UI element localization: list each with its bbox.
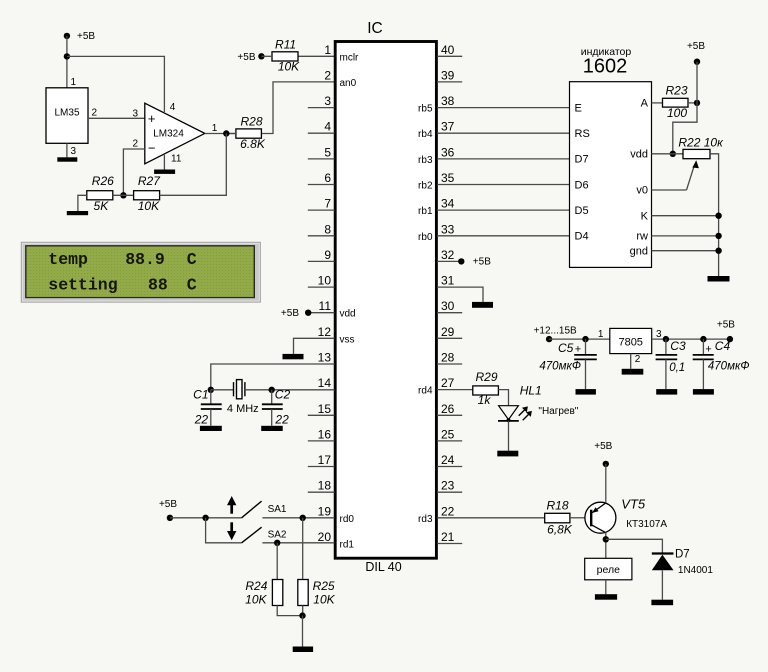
power +5B VT5 — [603, 461, 609, 467]
IC pin 30 stub — [437, 312, 462, 314]
svg-text:10: 10 — [318, 274, 332, 288]
svg-text:19: 19 — [318, 504, 332, 518]
node R24 top — [274, 540, 280, 546]
svg-text:17: 17 — [318, 453, 332, 467]
wire rw — [652, 235, 719, 237]
IC pin 3 stub — [308, 107, 335, 109]
IC pin 10 stub — [308, 286, 335, 288]
ground D7 — [651, 600, 673, 606]
svg-text:+: + — [148, 111, 156, 126]
svg-text:R26: R26 — [92, 174, 114, 188]
wire R29 to LED — [498, 390, 508, 406]
svg-text:100: 100 — [667, 106, 687, 120]
svg-text:C: C — [187, 250, 197, 269]
svg-text:v0: v0 — [636, 185, 648, 197]
resistor R27 — [134, 191, 160, 200]
svg-text:E: E — [575, 102, 582, 114]
wire LED to ground — [508, 421, 510, 451]
svg-text:+12...15В: +12...15В — [534, 325, 577, 336]
svg-text:6.8K: 6.8K — [240, 137, 266, 151]
IC pin 15 stub — [308, 414, 335, 416]
node R24/R25 — [299, 612, 305, 618]
ground LED — [497, 451, 518, 457]
svg-text:C4: C4 — [715, 339, 731, 353]
node R25 top — [300, 515, 306, 521]
svg-text:6,8K: 6,8K — [547, 522, 573, 536]
svg-text:36: 36 — [441, 145, 455, 159]
wire pin32 vdd +5B — [437, 260, 461, 262]
svg-text:temp: temp — [48, 250, 88, 269]
wire pin27 rd4 to R29 — [437, 389, 473, 391]
svg-text:16: 16 — [318, 427, 332, 441]
wire vdd to R22 — [652, 153, 684, 155]
resistor R23 — [663, 98, 689, 107]
power +5B top left — [64, 33, 70, 39]
IC pin 9 stub — [308, 260, 335, 262]
IC pin 16 stub — [308, 440, 335, 442]
wire inverting input to divider — [123, 149, 144, 195]
wire R27 to output node — [160, 134, 227, 196]
wire +5B to SA1 — [170, 517, 242, 519]
7805 pin2 wire — [630, 354, 632, 369]
LCD readout panel frame — [21, 242, 260, 302]
svg-text:470мкФ: 470мкФ — [708, 360, 750, 372]
wire R25 top — [302, 518, 304, 580]
svg-text:R22 10к: R22 10к — [678, 135, 724, 149]
svg-text:7805: 7805 — [618, 337, 642, 349]
svg-text:2: 2 — [635, 354, 641, 365]
svg-text:R23: R23 — [665, 83, 687, 97]
node junction +5B — [64, 53, 70, 59]
svg-text:27: 27 — [441, 376, 455, 390]
svg-text:D4: D4 — [575, 231, 589, 243]
regulator 7805 body — [610, 328, 652, 353]
svg-text:R24: R24 — [245, 579, 267, 593]
svg-text:8: 8 — [324, 222, 331, 236]
svg-text:88.9: 88.9 — [125, 250, 165, 269]
wires IC rb5-rb0 to indicator — [437, 107, 570, 109]
wire 7805 output rail — [652, 338, 730, 340]
wire pin22 rd3 to R18 — [437, 517, 545, 519]
svg-text:40: 40 — [441, 43, 455, 57]
svg-text:3: 3 — [656, 329, 662, 340]
svg-text:mclr: mclr — [340, 52, 360, 63]
power +5B indicator — [694, 59, 700, 65]
svg-text:0,1: 0,1 — [669, 362, 685, 374]
wire SA2 to pin20 — [262, 542, 334, 544]
wire input to 7805 — [549, 338, 610, 340]
svg-text:rw: rw — [636, 231, 648, 243]
crystal ZQ1 4MHz — [233, 382, 235, 396]
svg-text:DIL 40: DIL 40 — [365, 560, 401, 574]
op-amp output wire pin1 — [205, 133, 236, 135]
relay body — [585, 558, 632, 580]
op-amp pin11 wire — [163, 155, 165, 170]
IC pin 24 stub — [437, 466, 462, 468]
svg-text:+5B: +5B — [594, 441, 612, 452]
IC pin 18 stub — [308, 491, 335, 493]
IC pin 28 stub — [437, 363, 462, 365]
switch SA2 blade — [242, 527, 262, 543]
svg-text:+5B: +5B — [237, 52, 255, 63]
wire crystal left — [211, 389, 234, 391]
svg-text:29: 29 — [441, 325, 455, 339]
wire pin31 vss to ground — [437, 287, 483, 302]
svg-text:5K: 5K — [94, 199, 110, 213]
wire R26 to ground — [78, 195, 87, 211]
svg-text:3: 3 — [71, 146, 77, 157]
svg-text:rb4: rb4 — [418, 129, 433, 140]
svg-text:SA2: SA2 — [268, 529, 287, 540]
svg-text:9: 9 — [324, 248, 331, 262]
svg-text:5: 5 — [324, 145, 331, 159]
wire pin12 vss to ground — [294, 338, 335, 354]
wire R25 bottom — [302, 606, 304, 616]
svg-text:rb5: rb5 — [418, 104, 433, 115]
VT5 emitter with arrow — [592, 503, 606, 513]
svg-text:18: 18 — [318, 479, 332, 493]
svg-text:"Нагрев": "Нагрев" — [538, 406, 578, 417]
VT5 collector — [591, 525, 605, 533]
IC U1 DIL40 body — [335, 42, 436, 559]
wire R23 to +5B — [688, 102, 697, 104]
wire collector to D7 — [606, 539, 663, 552]
svg-text:38: 38 — [441, 94, 455, 108]
LED emission arrows — [519, 409, 526, 416]
svg-text:VT5: VT5 — [621, 497, 646, 512]
wire R24 top — [276, 543, 278, 580]
svg-text:21: 21 — [441, 530, 455, 544]
svg-text:4: 4 — [170, 102, 176, 113]
svg-text:D7: D7 — [675, 548, 690, 560]
svg-text:K: K — [641, 210, 649, 222]
svg-text:1k: 1k — [478, 393, 492, 407]
svg-text:6: 6 — [324, 171, 331, 185]
svg-text:1: 1 — [598, 329, 604, 340]
svg-text:30: 30 — [441, 299, 455, 313]
svg-text:10K: 10K — [278, 60, 300, 74]
wire +5B to LM35 pin1 — [66, 36, 68, 88]
svg-text:13: 13 — [318, 351, 332, 365]
svg-text:32: 32 — [441, 248, 455, 262]
svg-text:C: C — [187, 276, 197, 295]
wire to ground — [302, 616, 304, 647]
svg-text:25: 25 — [441, 427, 455, 441]
svg-text:реле: реле — [597, 564, 620, 576]
svg-text:11: 11 — [171, 154, 182, 165]
svg-text:vdd: vdd — [630, 148, 648, 160]
wire R26-R27 node — [113, 194, 134, 196]
svg-text:2: 2 — [132, 139, 138, 150]
wire +5B to op-amp pin4 — [67, 56, 164, 112]
svg-text:22: 22 — [274, 412, 289, 426]
svg-text:15: 15 — [318, 402, 332, 416]
IC pin 25 stub — [437, 440, 462, 442]
LCD pixel texture — [27, 247, 254, 297]
svg-text:rd0: rd0 — [340, 514, 355, 525]
IC pin 29 stub — [437, 337, 462, 339]
node C2 — [269, 387, 275, 393]
svg-text:3: 3 — [132, 109, 138, 120]
svg-text:2: 2 — [92, 108, 98, 119]
IC pin 26 stub — [437, 414, 462, 416]
svg-text:10K: 10K — [313, 593, 335, 607]
node vdd — [670, 151, 676, 157]
resistor R18 — [545, 513, 570, 523]
IC pin 6 stub — [308, 184, 335, 186]
node C1 — [208, 387, 214, 393]
IC pin 40 stub — [437, 55, 462, 57]
svg-text:14: 14 — [318, 376, 332, 390]
svg-text:C1: C1 — [193, 388, 208, 402]
IC pin 8 stub — [308, 235, 335, 237]
node C3 — [663, 336, 669, 342]
svg-text:35: 35 — [441, 171, 455, 185]
R22 wiper arrow — [687, 167, 694, 190]
wire gnd — [652, 250, 719, 252]
svg-text:4 MHz: 4 MHz — [227, 403, 259, 415]
svg-text:1: 1 — [71, 77, 77, 88]
svg-text:31: 31 — [441, 274, 455, 288]
svg-text:+: + — [575, 343, 581, 355]
switch SA1 blade — [242, 501, 262, 518]
svg-text:24: 24 — [441, 453, 455, 467]
svg-text:88: 88 — [148, 276, 168, 295]
wire pin11 vdd +5B — [308, 312, 334, 314]
svg-text:3: 3 — [324, 94, 331, 108]
svg-text:IC: IC — [367, 20, 383, 37]
svg-text:20: 20 — [318, 530, 332, 544]
node C5 — [582, 336, 588, 342]
wire pin1 R11 to IC — [298, 55, 335, 57]
svg-text:A: A — [641, 98, 649, 110]
LM35 pin3 wire — [66, 143, 68, 157]
capacitor C4 — [702, 339, 704, 354]
ground C5 — [576, 389, 596, 395]
svg-text:−: − — [148, 141, 156, 156]
svg-text:+5B: +5B — [687, 41, 705, 52]
capacitor C5 — [585, 339, 587, 354]
svg-text:rd4: rd4 — [418, 386, 433, 397]
node divider — [120, 192, 126, 198]
ground 7805 — [622, 369, 644, 375]
ground C2 — [261, 426, 283, 431]
wire D7 to ground — [661, 570, 663, 600]
IC pin 7 stub — [308, 209, 335, 211]
svg-text:setting: setting — [48, 276, 117, 295]
svg-text:RS: RS — [575, 128, 590, 140]
ground relay — [595, 594, 617, 600]
svg-text:HL1: HL1 — [520, 384, 542, 398]
svg-text:R28: R28 — [240, 115, 262, 129]
wire R28 to node — [226, 133, 236, 135]
svg-text:an0: an0 — [340, 78, 357, 89]
svg-text:R27: R27 — [138, 174, 161, 188]
capacitor C2 — [271, 390, 273, 404]
capacitor C3 — [665, 339, 667, 354]
svg-text:22: 22 — [194, 412, 209, 426]
svg-text:39: 39 — [441, 68, 455, 82]
svg-text:+5B: +5B — [717, 320, 735, 331]
svg-text:C3: C3 — [670, 339, 686, 353]
svg-text:1N4001: 1N4001 — [678, 565, 713, 576]
power +5B rail end — [727, 336, 733, 342]
wire A to R23 — [652, 102, 663, 104]
svg-text:22: 22 — [441, 504, 455, 518]
svg-text:gnd: gnd — [630, 245, 648, 257]
svg-text:rd3: rd3 — [418, 514, 433, 525]
op-amp U1 LM324 triangle — [145, 103, 205, 164]
svg-text:+5B: +5B — [159, 499, 177, 510]
svg-text:+5B: +5B — [281, 308, 299, 319]
svg-text:10K: 10K — [138, 199, 160, 213]
IC pin 4 stub — [308, 132, 335, 134]
resistor R11 — [272, 52, 298, 61]
IC pin 21 stub — [437, 543, 462, 545]
diode D7 1N4001 — [652, 552, 674, 554]
svg-text:7: 7 — [324, 197, 331, 211]
svg-text:rb2: rb2 — [418, 181, 433, 192]
ground C3 — [656, 389, 677, 395]
svg-text:1602: 1602 — [583, 56, 628, 78]
potentiometer R22 — [683, 149, 710, 158]
svg-text:vss: vss — [340, 334, 355, 345]
node R23/+5B — [694, 100, 700, 106]
svg-text:28: 28 — [441, 351, 455, 365]
wire pin2 an0 to R28 — [261, 82, 334, 134]
wire crystal right to pin14 — [245, 389, 335, 391]
svg-text:rb0: rb0 — [418, 232, 433, 243]
svg-text:2: 2 — [324, 68, 331, 82]
svg-text:rb3: rb3 — [418, 155, 433, 166]
capacitor C1 — [210, 390, 212, 404]
ground pin31 — [472, 302, 493, 308]
arrow down — [230, 522, 233, 532]
wire R24 bottom — [277, 606, 302, 616]
wire +5B node down to vdd — [673, 103, 697, 154]
node collector — [603, 536, 609, 542]
svg-text:R29: R29 — [475, 370, 497, 384]
resistor R28 — [236, 129, 262, 138]
svg-text:LM324: LM324 — [153, 128, 184, 139]
svg-text:12: 12 — [318, 325, 332, 339]
wire to SA2 — [206, 518, 242, 543]
IC pin 39 stub — [437, 81, 462, 83]
svg-text:R25: R25 — [313, 579, 335, 593]
transistor VT5 KT3107A — [585, 502, 616, 533]
LM35 pin2 wire to op-amp — [88, 117, 145, 119]
sensor LM35 body — [46, 88, 88, 144]
wire collector down — [605, 532, 607, 558]
svg-text:rb1: rb1 — [418, 206, 433, 217]
resistor R25 — [298, 580, 308, 606]
svg-text:33: 33 — [441, 222, 455, 236]
wire pin13 to crystal — [211, 364, 335, 390]
svg-text:1: 1 — [212, 123, 218, 134]
ground pin12 — [283, 354, 304, 359]
ground R24/R25 — [293, 647, 313, 653]
svg-text:SA1: SA1 — [268, 504, 287, 515]
svg-text:vdd: vdd — [340, 309, 356, 320]
indicator 1602 body — [570, 82, 652, 268]
IC pin 17 stub — [308, 466, 335, 468]
ground op-amp — [154, 170, 175, 174]
resistor R24 — [272, 580, 282, 606]
wire K — [652, 215, 719, 217]
wire relay to ground — [605, 580, 607, 594]
IC pin 23 stub — [437, 491, 462, 493]
svg-text:470мкФ: 470мкФ — [539, 360, 581, 372]
svg-text:+5B: +5B — [473, 257, 491, 268]
svg-text:23: 23 — [441, 479, 455, 493]
svg-text:LM35: LM35 — [54, 107, 79, 118]
node op-amp output — [223, 130, 229, 136]
resistor R29 — [473, 386, 499, 395]
ground LM35 — [57, 157, 77, 161]
node SA junction — [202, 515, 208, 521]
svg-text:+: + — [705, 343, 711, 355]
svg-text:+5B: +5B — [77, 31, 95, 42]
svg-text:КТ3107А: КТ3107А — [626, 519, 667, 530]
svg-text:10K: 10K — [245, 593, 267, 607]
wire R22 right to ground rail — [710, 154, 719, 276]
node C4 — [700, 336, 706, 342]
svg-text:R18: R18 — [546, 499, 568, 513]
arrow up — [230, 504, 233, 514]
svg-text:D7: D7 — [575, 154, 589, 166]
svg-text:R11: R11 — [275, 37, 296, 51]
svg-text:D5: D5 — [575, 205, 589, 217]
svg-text:C2: C2 — [275, 388, 291, 402]
wire SA1 to pin19 — [262, 517, 334, 519]
svg-text:rd1: rd1 — [340, 540, 355, 551]
svg-text:26: 26 — [441, 402, 455, 416]
ground indicator — [708, 276, 730, 282]
svg-text:4: 4 — [324, 120, 331, 134]
svg-text:1: 1 — [324, 43, 331, 57]
ground R26 — [67, 211, 88, 215]
power +5B at R11 — [258, 53, 264, 59]
svg-text:C5: C5 — [558, 341, 574, 355]
wire v0 to wiper — [652, 189, 687, 191]
ground C4 — [693, 389, 714, 395]
resistor R26 — [87, 191, 113, 200]
wire +5B to emitter — [605, 464, 607, 503]
wire R18 to base — [570, 517, 585, 519]
svg-text:D6: D6 — [575, 179, 589, 191]
svg-text:37: 37 — [441, 120, 455, 134]
svg-text:34: 34 — [441, 197, 455, 211]
svg-text:11: 11 — [319, 299, 332, 313]
IC pin 5 stub — [308, 158, 335, 160]
ground C1 — [200, 426, 222, 431]
